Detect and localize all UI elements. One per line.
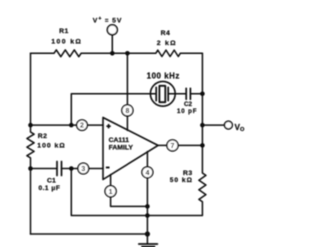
svg-text:R2: R2 (38, 133, 48, 140)
svg-text:C1: C1 (47, 177, 56, 184)
svg-text:R1: R1 (59, 28, 69, 35)
svg-text:R4: R4 (161, 30, 171, 37)
svg-text:1: 1 (109, 189, 113, 196)
svg-text:CA111: CA111 (109, 137, 130, 144)
svg-text:2: 2 (80, 123, 84, 130)
svg-text:100 kΩ: 100 kΩ (37, 143, 65, 150)
svg-text:V+ = 5V: V+ = 5V (93, 16, 123, 24)
svg-text:2 kΩ: 2 kΩ (157, 40, 177, 47)
svg-text:10 pF: 10 pF (177, 108, 197, 115)
svg-text:R3: R3 (183, 170, 193, 177)
svg-text:FAMILY: FAMILY (109, 145, 134, 152)
svg-text:100 kΩ: 100 kΩ (51, 39, 82, 46)
svg-text:50 kΩ: 50 kΩ (170, 177, 193, 184)
svg-text:7: 7 (171, 143, 175, 150)
svg-text:3: 3 (81, 166, 85, 173)
svg-text:VO: VO (235, 123, 245, 133)
svg-text:100 kHz: 100 kHz (147, 72, 180, 81)
svg-text:4: 4 (145, 170, 149, 177)
svg-text:8: 8 (125, 108, 129, 115)
svg-text:0.1 μF: 0.1 μF (39, 185, 61, 192)
